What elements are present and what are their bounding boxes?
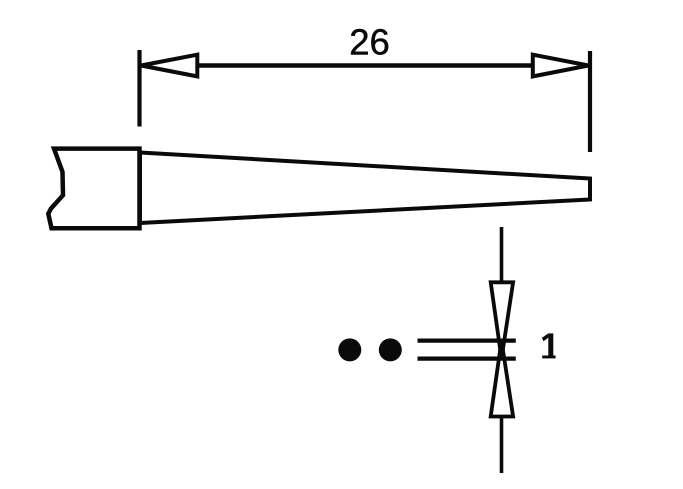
svg-text:26: 26 — [349, 22, 390, 63]
